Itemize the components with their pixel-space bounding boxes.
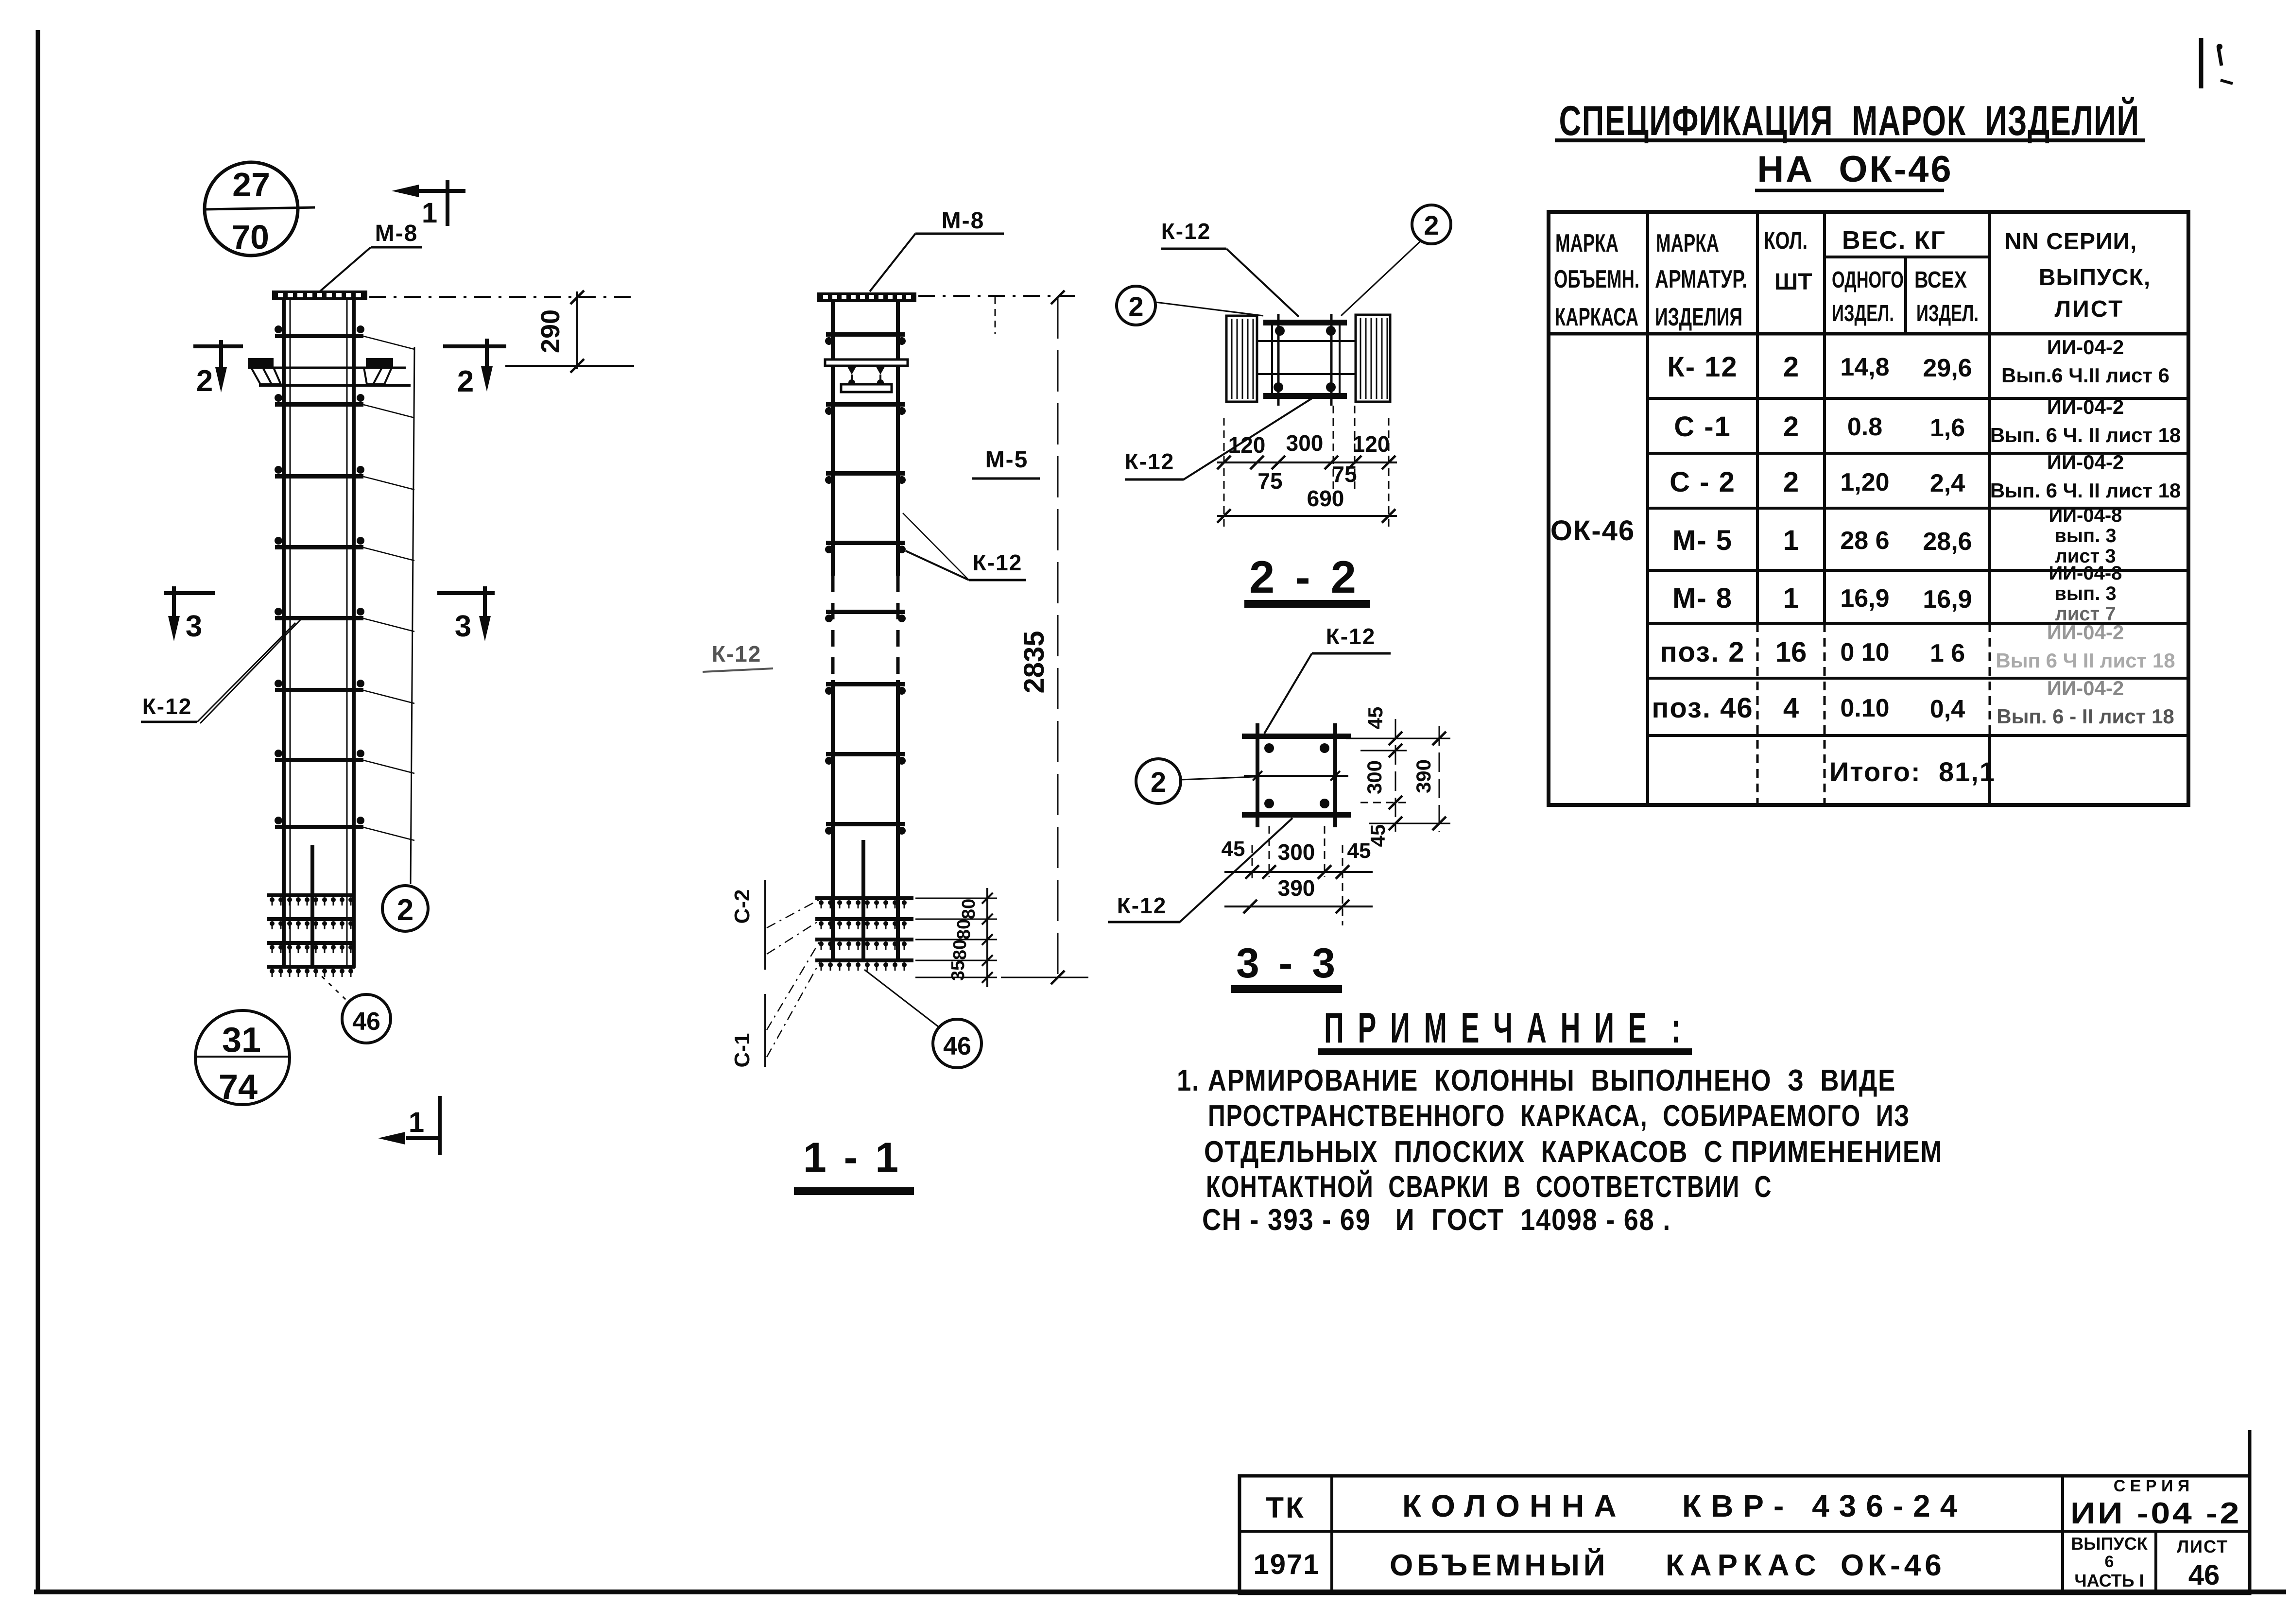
title block name row 2 (1390, 1548, 1946, 1582)
page border left (36, 30, 40, 1594)
svg-text:75: 75 (1257, 468, 1282, 494)
svg-text:Вып. 6 Ч. II лист 18: Вып. 6 Ч. II лист 18 (1990, 479, 2181, 502)
page corner mark top-right (2201, 38, 2233, 88)
dimension 290 (505, 291, 634, 373)
section mark 2 left (193, 340, 243, 398)
svg-text:ИИ-04-2: ИИ-04-2 (2047, 451, 2124, 474)
title block frame (1240, 1430, 2250, 1593)
svg-text:2: 2 (1424, 210, 1439, 240)
svg-text:0.10: 0.10 (1840, 694, 1889, 722)
note text line 1 (1177, 1064, 1896, 1097)
section mark 3 right (437, 586, 495, 643)
svg-text:КАРКАС: КАРКАС (1666, 1549, 1822, 1582)
svg-text:К-12: К-12 (973, 550, 1023, 575)
svg-text:ОТДЕЛЬНЫХ ПЛОСКИХ КАРКАСОВ: ОТДЕЛЬНЫХ ПЛОСКИХ КАРКАСОВ С ПРИМЕНЕНИЕМ (1204, 1135, 1943, 1169)
svg-text:2: 2 (1783, 466, 1799, 498)
anchor mesh view 1-1 (815, 896, 913, 971)
tie leader collector line left view (363, 336, 414, 884)
svg-text:1: 1 (409, 1107, 424, 1138)
svg-text:2: 2 (196, 364, 213, 398)
svg-text:К- 12: К- 12 (1667, 351, 1738, 383)
svg-text:1: 1 (422, 197, 437, 229)
svg-text:С-1: С-1 (730, 1033, 754, 1068)
svg-text:МАРКА: МАРКА (1555, 229, 1618, 257)
svg-text:1,6: 1,6 (1930, 414, 1965, 442)
note text line 5 (1202, 1203, 1671, 1237)
svg-text:К-12: К-12 (1117, 893, 1167, 918)
svg-text:75: 75 (1332, 462, 1357, 487)
svg-text:45: 45 (1347, 839, 1371, 863)
svg-text:К-12: К-12 (1125, 449, 1175, 474)
svg-text:ВСЕХ: ВСЕХ (1914, 267, 1967, 293)
svg-text:ОБЪЕМНЫЙ: ОБЪЕМНЫЙ (1390, 1548, 1609, 1582)
position balloon 2 section 2-2 left (1117, 286, 1263, 325)
note text line 2 (1208, 1099, 1910, 1133)
top plate M-8 view 1-1 (817, 292, 916, 302)
section mark 3 left (164, 586, 215, 643)
spec table heading (1555, 97, 2145, 190)
spec table row C-2 (1670, 451, 2181, 502)
svg-text:46: 46 (2188, 1559, 2220, 1591)
svg-text:С-2: С-2 (730, 889, 754, 924)
svg-text:80: 80 (954, 919, 974, 940)
svg-text:2 - 2: 2 - 2 (1249, 551, 1360, 602)
column ties view 1-1 (825, 332, 906, 835)
svg-text:3: 3 (455, 610, 471, 643)
svg-text:ИЗДЕЛИЯ: ИЗДЕЛИЯ (1655, 303, 1742, 331)
svg-text:Итого:: Итого: (1829, 756, 1921, 787)
section 2-2 left hatched plate (1226, 316, 1257, 402)
svg-text:М- 8: М- 8 (1672, 582, 1733, 614)
svg-text:ИИ-04-2: ИИ-04-2 (2047, 336, 2124, 359)
section 3-3 vertical dimensions 45 300 45 390 (1346, 707, 1450, 847)
spec table header text (1554, 226, 2151, 331)
section 3-3 horizontal dimensions 45 300 45 390 (1222, 826, 1373, 925)
svg-text:120: 120 (1353, 431, 1390, 457)
svg-text:МАРКА: МАРКА (1656, 229, 1719, 257)
svg-text:ИИ-04-8: ИИ-04-8 (2049, 563, 2122, 584)
label K-12 view 1-1 left (703, 641, 773, 672)
svg-text:К-12: К-12 (712, 641, 762, 667)
svg-text:ВЕС. КГ: ВЕС. КГ (1842, 226, 1946, 255)
page border bottom (34, 1590, 2286, 1594)
anchor mesh left view (267, 893, 355, 977)
svg-text:ИИ-04-8: ИИ-04-8 (2049, 505, 2122, 526)
svg-text:ИИ-04-2: ИИ-04-2 (2047, 395, 2124, 418)
svg-text:74: 74 (219, 1068, 258, 1107)
svg-text:ТК: ТК (1266, 1491, 1305, 1524)
svg-text:70: 70 (231, 218, 269, 256)
svg-text:КОЛ.: КОЛ. (1764, 227, 1808, 254)
svg-text:ОБЪЕМН.: ОБЪЕМН. (1554, 265, 1639, 293)
svg-text:КОНТАКТНОЙ СВАРКИ В СООТВЕТ: КОНТАКТНОЙ СВАРКИ В СООТВЕТСТВИИ С (1206, 1170, 1772, 1204)
svg-text:ВЫПУСК,: ВЫПУСК, (2039, 265, 2151, 291)
svg-text:ЛИСТ: ЛИСТ (2055, 296, 2124, 322)
label C-2 (730, 880, 820, 970)
svg-text:ИЗДЕЛ.: ИЗДЕЛ. (1832, 301, 1894, 326)
position balloon 46 view 1-1 (864, 970, 981, 1068)
svg-text:Вып 6 Ч II лист 18: Вып 6 Ч II лист 18 (1996, 649, 2175, 672)
svg-text:ВЫПУСК: ВЫПУСК (2071, 1534, 2148, 1554)
svg-text:0.8: 0.8 (1847, 413, 1882, 441)
label C-1 (730, 940, 820, 1067)
svg-text:16,9: 16,9 (1840, 584, 1889, 613)
spec table row C-1 (1674, 395, 2181, 446)
svg-text:690: 690 (1307, 486, 1344, 511)
svg-text:6: 6 (2105, 1553, 2114, 1571)
column ties left view (275, 325, 364, 829)
center bar view 1-1 (861, 840, 865, 962)
position balloon 46 left view (315, 970, 391, 1043)
title block name row 1 (1402, 1488, 1967, 1523)
svg-text:2,4: 2,4 (1930, 469, 1965, 497)
svg-text:СН - 393 - 69 И ГОСТ 14098: СН - 393 - 69 И ГОСТ 14098 - 68 . (1202, 1203, 1671, 1237)
svg-text:28,6: 28,6 (1923, 528, 1972, 556)
label K-12 section 3-3 bottom (1108, 818, 1292, 922)
svg-text:М-8: М-8 (942, 208, 985, 234)
svg-text:3 - 3: 3 - 3 (1236, 940, 1339, 987)
svg-text:КВР- 436-24: КВР- 436-24 (1682, 1488, 1967, 1523)
spec table total row (1829, 756, 1996, 787)
svg-text:ОДНОГО: ОДНОГО (1832, 267, 1904, 293)
svg-text:2: 2 (1151, 767, 1166, 798)
position balloon 2 section 2-2 right (1341, 205, 1451, 316)
svg-text:1: 1 (1783, 525, 1799, 556)
svg-text:ОК-46: ОК-46 (1841, 1549, 1946, 1582)
title 1-1 (794, 1134, 914, 1195)
svg-text:0 10: 0 10 (1840, 638, 1889, 667)
position balloon 2 left view (382, 886, 428, 931)
svg-text:2: 2 (1128, 291, 1143, 322)
svg-text:вып. 3: вып. 3 (2054, 525, 2116, 547)
svg-text:М- 5: М- 5 (1672, 525, 1733, 556)
spec table row poz.46 (1652, 677, 2174, 728)
label K-12 section 3-3 top (1264, 624, 1391, 734)
svg-text:2: 2 (1783, 411, 1799, 443)
svg-text:Вып.6 Ч.II лист 6: Вып.6 Ч.II лист 6 (2001, 364, 2169, 387)
svg-text:ИЗДЕЛ.: ИЗДЕЛ. (1916, 301, 1979, 326)
top level line view 1-1 (918, 296, 1076, 334)
svg-text:35: 35 (948, 960, 968, 981)
svg-text:31: 31 (222, 1021, 261, 1060)
svg-text:С -1: С -1 (1674, 411, 1731, 443)
title 3-3 (1231, 940, 1342, 993)
svg-text:45: 45 (1364, 707, 1387, 730)
note text line 4 (1206, 1170, 1772, 1204)
svg-text:46: 46 (943, 1032, 971, 1060)
svg-text:2: 2 (457, 365, 474, 398)
svg-text:2: 2 (397, 893, 413, 927)
svg-text:Вып. 6 Ч. II лист 18: Вып. 6 Ч. II лист 18 (1990, 424, 2181, 446)
column longitudinal bars left view (284, 300, 354, 968)
top plate M-8 left view (272, 291, 367, 300)
svg-text:ПРОСТРАНСТВЕННОГО КАРКАСА, С: ПРОСТРАНСТВЕННОГО КАРКАСА, СОБИРАЕМОГО И… (1208, 1099, 1910, 1133)
svg-text:1 - 1: 1 - 1 (803, 1134, 901, 1181)
svg-text:4: 4 (1783, 692, 1799, 724)
svg-text:Вып. 6 - II лист 18: Вып. 6 - II лист 18 (1997, 705, 2174, 728)
svg-text:К-12: К-12 (1161, 219, 1211, 244)
svg-text:28 6: 28 6 (1840, 527, 1889, 555)
svg-text:КОЛОННА: КОЛОННА (1402, 1488, 1626, 1523)
svg-text:390: 390 (1278, 875, 1315, 901)
svg-text:ИИ-04-2: ИИ-04-2 (2047, 621, 2124, 644)
svg-text:М-5: М-5 (985, 447, 1029, 473)
embed M-5 detail view 1-1 (825, 359, 908, 392)
marker circle 31/74 (195, 1010, 290, 1107)
spec table row M-8 (1672, 563, 2122, 625)
svg-text:С - 2: С - 2 (1670, 466, 1736, 498)
spec table row M-5 (1672, 505, 2122, 567)
svg-text:1 6: 1 6 (1930, 639, 1965, 667)
label K-12 section 2-2 bottom (1125, 398, 1312, 479)
label K-12 left view (141, 618, 302, 723)
corbel console left view (248, 358, 411, 385)
marker circle 27/70 (205, 162, 315, 256)
label M-8 view 1-1 (870, 208, 1004, 291)
svg-text:1: 1 (1783, 582, 1799, 614)
svg-text:вып. 3: вып. 3 (2054, 583, 2116, 604)
title block vypusk (2071, 1534, 2148, 1590)
section mark 1 top (392, 180, 465, 229)
section 2-2 right hatched plate (1356, 315, 1390, 402)
spec table grid (1549, 212, 2188, 805)
svg-text:16: 16 (1775, 636, 1807, 668)
svg-text:45: 45 (1222, 837, 1245, 861)
title block list number (2177, 1537, 2228, 1591)
svg-text:46: 46 (352, 1008, 380, 1036)
svg-text:НА ОК-46: НА ОК-46 (1757, 149, 1953, 190)
svg-text:29,6: 29,6 (1923, 354, 1972, 382)
label K-12 section 2-2 top (1161, 219, 1299, 317)
title 2-2 (1244, 551, 1370, 608)
svg-text:14,8: 14,8 (1840, 353, 1889, 381)
section mark 1 bottom (378, 1096, 441, 1155)
svg-text:2: 2 (1783, 351, 1799, 383)
note text line 3 (1204, 1135, 1943, 1169)
dimension 2835 (1001, 291, 1088, 984)
spec table row poz.2 (1660, 621, 2175, 672)
svg-text:М-8: М-8 (375, 221, 418, 246)
top level line left view (369, 296, 637, 298)
svg-text:КАРКАСА: КАРКАСА (1555, 303, 1638, 331)
svg-text:1. АРМИРОВАНИЕ КОЛОННЫ ВЫПОЛ: 1. АРМИРОВАНИЕ КОЛОННЫ ВЫПОЛНЕНО З ВИДЕ (1177, 1064, 1896, 1097)
svg-text:300: 300 (1278, 839, 1315, 865)
spec table mark OK-46 (1550, 515, 1635, 547)
svg-text:NN СЕРИИ,: NN СЕРИИ, (2005, 229, 2137, 255)
svg-text:П Р И М Е Ч А Н И Е :: П Р И М Е Ч А Н И Е : (1324, 1004, 1684, 1052)
svg-text:С Е Р И Я: С Е Р И Я (2114, 1477, 2190, 1495)
mesh spacing dimensions 80x3 35 (915, 888, 997, 987)
svg-text:80: 80 (959, 899, 979, 919)
svg-text:ЛИСТ: ЛИСТ (2177, 1537, 2228, 1556)
column bars view 1-1 (833, 302, 898, 962)
svg-text:АРМАТУР.: АРМАТУР. (1655, 265, 1747, 293)
center bar left view (310, 845, 314, 969)
svg-text:27: 27 (232, 166, 270, 204)
label M-5 (972, 447, 1040, 479)
svg-text:ИИ -04 -2: ИИ -04 -2 (2070, 1497, 2241, 1530)
svg-text:К-12: К-12 (1326, 624, 1376, 649)
section mark 2 right (443, 339, 506, 398)
section 2-2 tie square (1257, 314, 1356, 406)
svg-text:290: 290 (536, 309, 565, 353)
svg-text:ИИ-04-2: ИИ-04-2 (2047, 677, 2124, 700)
svg-text:16,9: 16,9 (1923, 585, 1972, 614)
section 3-3 tie square (1242, 723, 1351, 827)
svg-text:поз. 2: поз. 2 (1660, 636, 1745, 668)
svg-text:390: 390 (1412, 759, 1435, 793)
section 2-2 dimension chain 120 300 120 75 75 690 (1217, 406, 1397, 530)
title block field TK (1266, 1491, 1305, 1524)
svg-text:2835: 2835 (1018, 631, 1050, 693)
svg-text:300: 300 (1286, 430, 1324, 456)
svg-text:80: 80 (950, 940, 970, 960)
svg-text:ЧАСТЬ I: ЧАСТЬ I (2074, 1571, 2144, 1590)
note heading (1318, 1004, 1692, 1055)
svg-text:0,4: 0,4 (1930, 695, 1965, 723)
svg-text:поз. 46: поз. 46 (1652, 692, 1753, 724)
svg-text:К-12: К-12 (142, 694, 192, 719)
svg-text:81,1: 81,1 (1939, 756, 1996, 787)
label K-12 view 1-1 right (903, 513, 1026, 580)
svg-text:1971: 1971 (1253, 1549, 1320, 1580)
spec table row K-12 (1667, 336, 2169, 387)
title block field year 1971 (1253, 1549, 1320, 1580)
position balloon 2 section 3-3 (1136, 759, 1255, 803)
svg-text:120: 120 (1228, 432, 1266, 458)
svg-text:ШТ: ШТ (1774, 269, 1812, 295)
svg-text:СПЕЦИФИКАЦИЯ МАРОК ИЗДЕЛИЙ: СПЕЦИФИКАЦИЯ МАРОК ИЗДЕЛИЙ (1559, 97, 2140, 144)
title block series (2070, 1477, 2241, 1530)
svg-text:300: 300 (1363, 760, 1386, 794)
svg-text:3: 3 (186, 610, 202, 643)
svg-text:ОК-46: ОК-46 (1550, 515, 1635, 547)
label M-8 left view (316, 221, 422, 295)
svg-text:1,20: 1,20 (1840, 468, 1889, 496)
